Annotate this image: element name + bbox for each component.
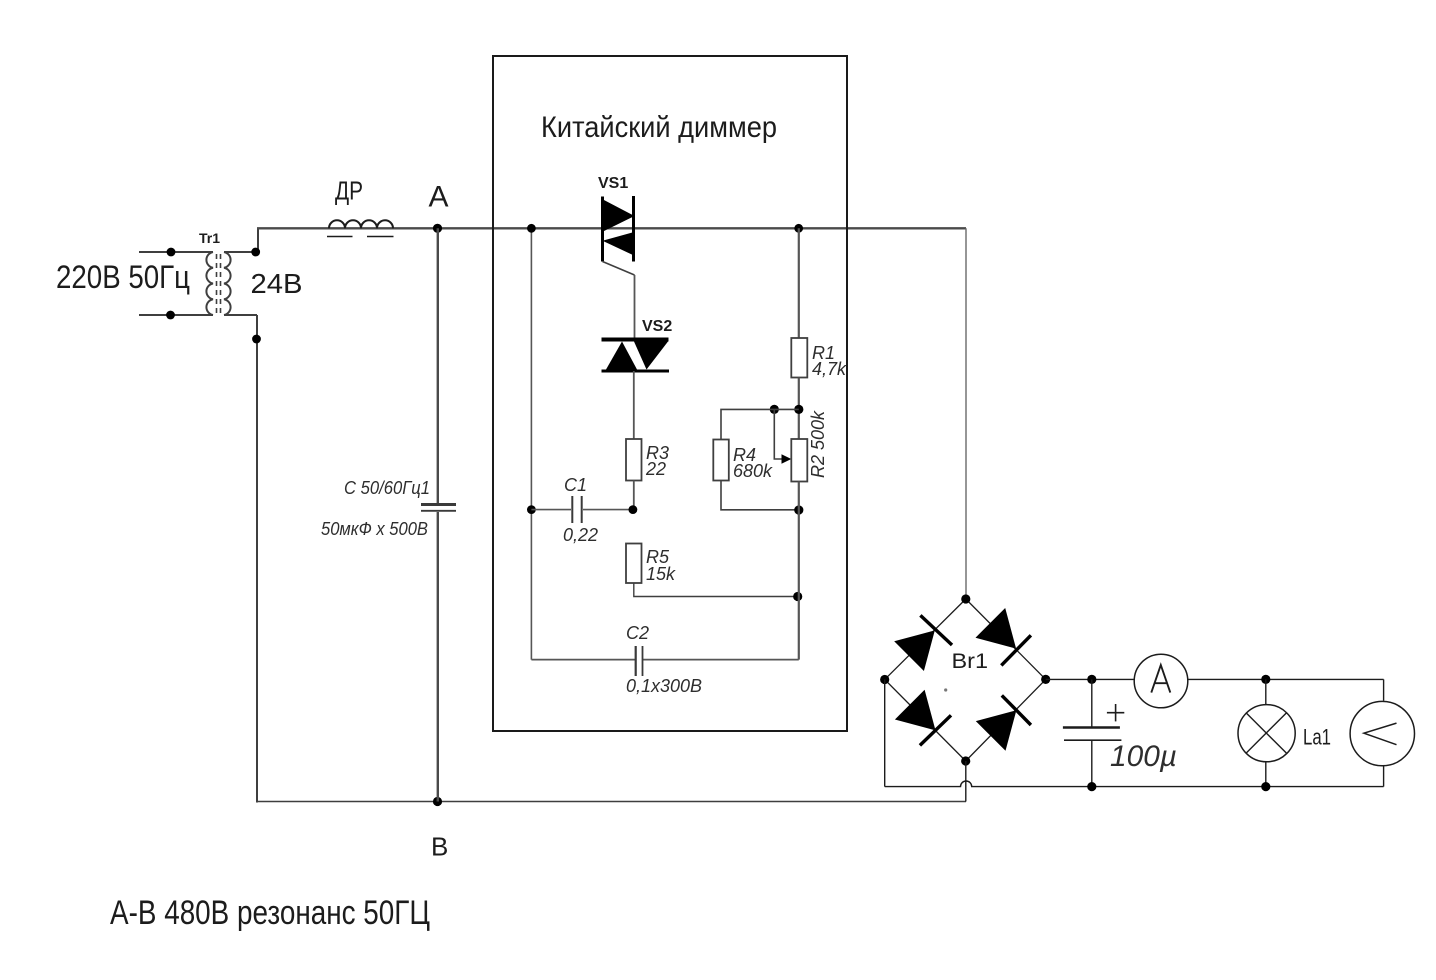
diac VS2	[602, 340, 670, 372]
node dot secondary top	[251, 248, 260, 257]
node dot capacitor bottom	[1087, 782, 1096, 791]
wire R4 bottom horizontal	[721, 481, 799, 510]
svg-text:680k: 680k	[733, 461, 773, 481]
node dot primary bottom	[166, 311, 175, 320]
svg-text:22: 22	[645, 459, 666, 479]
node dot R5/R2 junction	[793, 592, 802, 601]
node dot wiper top	[770, 405, 779, 414]
resistor R4	[713, 440, 729, 481]
wire bottom rail horizontal	[256, 801, 966, 803]
ammeter A	[1134, 654, 1188, 708]
svg-text:VS1: VS1	[598, 175, 628, 192]
node A dot	[433, 224, 442, 233]
resistor R3	[626, 439, 642, 481]
dimmer box	[493, 56, 847, 731]
svg-text:C1: C1	[564, 475, 587, 495]
svg-text:0,1х300В: 0,1х300В	[626, 676, 702, 696]
wire bridge bottom node down to B rail	[965, 761, 967, 802]
wire R3 to C1 node	[633, 481, 635, 510]
transformer Tr1 secondary winding	[224, 252, 231, 315]
node B dot	[433, 797, 442, 806]
transformer Tr1 primary winding	[206, 252, 213, 315]
svg-text:50мкФ х 500В: 50мкФ х 500В	[321, 519, 428, 539]
transformer Tr1 secondary top lead wire	[224, 228, 258, 252]
transformer Tr1 secondary bottom lead wire	[224, 314, 257, 316]
svg-text:В: В	[431, 832, 448, 862]
transformer Tr1 primary bottom lead wire	[139, 314, 213, 316]
node dot capacitor top	[1087, 675, 1096, 684]
svg-text:ДР: ДР	[335, 176, 363, 206]
svg-text:100µ: 100µ	[1110, 740, 1177, 773]
bridge node dots	[961, 594, 970, 603]
node dot R1/R2 junction	[794, 405, 803, 414]
svg-text:Китайский диммер: Китайский диммер	[541, 111, 777, 144]
node dot R4 bottom junction	[794, 505, 803, 514]
capacitor 100u	[1063, 679, 1122, 786]
node dot lamp bottom	[1261, 782, 1270, 791]
wire VS1 gate to VS2	[634, 275, 636, 339]
wire left rail vertical	[256, 315, 258, 803]
wire VS2 to R3	[633, 371, 635, 439]
capacitor C plates	[421, 503, 456, 506]
lamp La1	[1238, 679, 1295, 786]
voltmeter	[1350, 679, 1414, 786]
svg-text:C2: C2	[626, 623, 649, 643]
node dot C1 left	[527, 505, 536, 514]
diode top-right of Br1	[976, 608, 1031, 665]
wire plus rail	[1046, 678, 1136, 680]
transformer Tr1 core dashed lines	[216, 254, 218, 313]
potentiometer R2	[791, 439, 807, 482]
svg-text:24В: 24В	[251, 268, 303, 299]
svg-text:220В 50Гц: 220В 50Гц	[56, 259, 190, 295]
wire main top horizontal	[257, 227, 966, 229]
svg-text:Tr1: Tr1	[199, 230, 220, 246]
svg-text:La1: La1	[1303, 725, 1331, 750]
capacitor 100u plus sign	[1107, 704, 1124, 721]
wire R1 to R2	[798, 378, 800, 440]
svg-text:R2 500k: R2 500k	[808, 410, 828, 478]
svg-text:С 50/60Гц1: С 50/60Гц1	[344, 478, 430, 498]
capacitor C1	[531, 496, 633, 523]
wire R4 top horizontal	[721, 409, 799, 439]
diode bottom-left of Br1	[895, 690, 951, 746]
stray mark	[944, 688, 947, 691]
wire main to R1	[798, 228, 800, 338]
wire node A vertical through capacitor C	[437, 228, 439, 503]
svg-text:15k: 15k	[646, 564, 676, 584]
wire R2 bottom to C2 corner	[798, 482, 800, 660]
svg-text:0,22: 0,22	[563, 525, 598, 545]
wire bridge left node down	[884, 680, 886, 787]
wire minus rail with hop	[885, 781, 1384, 787]
node dot primary top	[167, 248, 176, 257]
diode top-left of Br1	[894, 615, 952, 671]
node dot R1 top on main wire	[794, 224, 803, 233]
potentiometer R2 wiper arrow	[774, 409, 791, 463]
resistor R1	[791, 338, 807, 378]
node dot lamp top	[1261, 675, 1270, 684]
svg-text:Br1: Br1	[952, 650, 989, 673]
node dot C1 right	[629, 505, 638, 514]
node dot inner-left top	[527, 224, 536, 233]
transformer Tr1 primary top lead wire	[139, 251, 213, 253]
capacitor C2 plates	[635, 646, 637, 676]
diode bottom-right of Br1	[976, 695, 1031, 750]
node dot on left rail	[252, 335, 261, 344]
svg-text:VS2: VS2	[642, 318, 672, 335]
wire main to bridge top	[965, 228, 967, 599]
svg-text:А-В 480В резонанс 50ГЦ: А-В 480В резонанс 50ГЦ	[110, 894, 430, 932]
svg-text:А: А	[429, 181, 449, 214]
triac VS1	[603, 196, 636, 275]
inductor ДР	[327, 220, 394, 236]
capacitor C2 rail	[531, 659, 635, 661]
wire inner-left vertical	[530, 228, 532, 659]
resistor R5	[626, 544, 642, 584]
bridge Br1 diamond edges	[885, 599, 1046, 761]
svg-text:4,7k: 4,7k	[812, 359, 847, 379]
wire R5 bottom to R2 line	[634, 583, 798, 597]
